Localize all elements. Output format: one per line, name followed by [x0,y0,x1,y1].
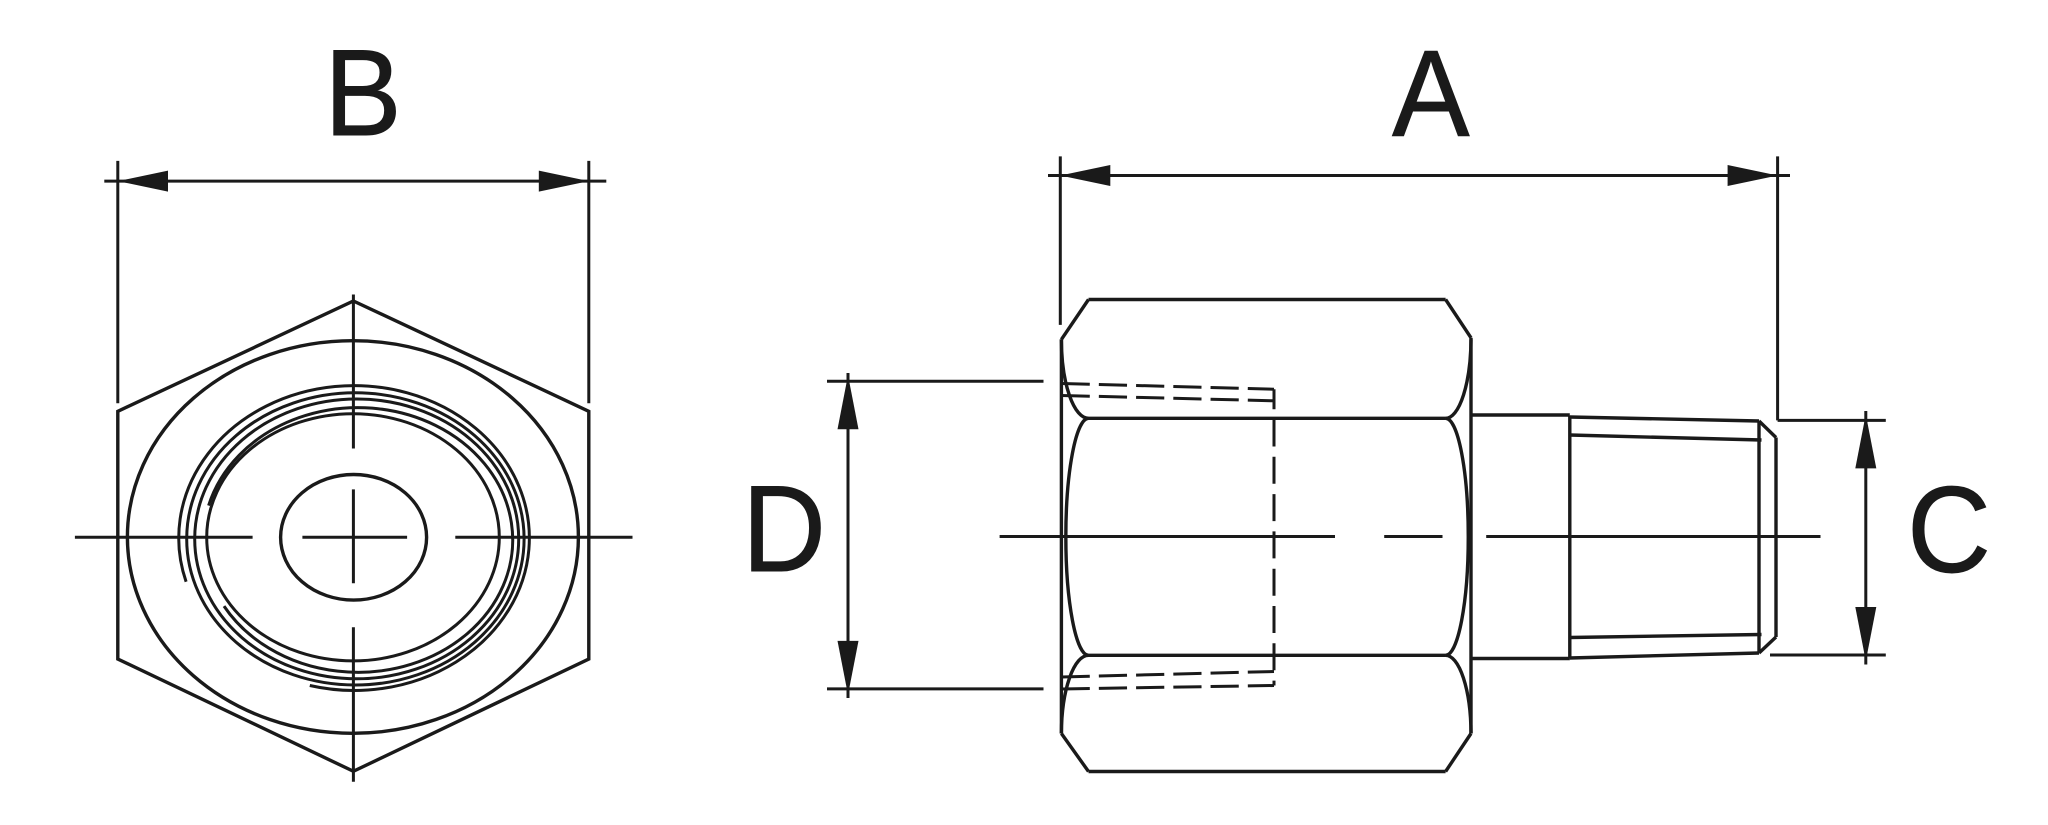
left view: vertical centerline upper segment [352,295,355,449]
left view: center bore ellipse [281,475,427,601]
right view: top-left corner chamfer [1061,300,1088,340]
dimension A: left extension line [1059,156,1062,325]
right view: hex body bottom edge [1089,770,1446,773]
right view: hidden internal thread top inner dashed line [1062,396,1274,401]
svg-text:C: C [1907,462,1991,599]
right view: shoulder top line [1471,413,1570,416]
right view: top-right face arc [1446,338,1471,419]
svg-text:A: A [1392,26,1470,163]
left view: thread ring 4 (partial, gap at left) [209,408,513,673]
right view: bottom-left face arc [1061,655,1088,733]
right view: male thread top root line [1570,435,1762,440]
dimension C: dimension line [1864,411,1867,665]
left view: vertical centerline center-mark segment [352,489,355,583]
dimension A: right arrowhead [1728,165,1778,186]
right view: shoulder bottom line [1471,657,1570,660]
right view: bottom-right corner chamfer [1446,734,1471,772]
dimension C: top arrowhead [1855,414,1876,468]
svg-text:B: B [324,25,401,162]
left view: vertical centerline lower segment [352,627,355,782]
dimension D: top arrowhead [838,375,859,429]
dimension B: left arrowhead [118,171,168,192]
left view: thread outer ring (partial, runout gap at lower-left) [179,386,530,691]
dimension A: right extension line [1776,156,1779,420]
right view: hidden internal thread bottom inner dashed line [1062,672,1274,678]
right view: horizontal centerline right segment [1486,535,1820,538]
right view: tip bottom chamfer [1759,637,1776,653]
left view: chamfer ellipse (outer circle) [127,341,578,734]
dimension B: dimension line [104,180,606,183]
right view: hex body top edge [1089,298,1446,301]
dimension B: left extension line [116,161,119,403]
svg-text:D: D [742,461,826,598]
dimension D: bottom extension line [827,687,1044,690]
dimension A: dimension line [1048,174,1790,177]
dimension A: left arrowhead [1060,165,1110,186]
dimension D: top extension line [827,380,1044,383]
right view: bottom-right face arc [1446,655,1471,733]
left view: horizontal centerline left segment [75,536,253,539]
right view: male thread bottom root line [1570,635,1762,638]
left view: horizontal centerline right segment [455,536,632,539]
right view: bottom-left corner chamfer [1061,734,1088,772]
right view: mid-face top line [1089,417,1446,420]
dimension D: dimension line [847,373,850,698]
right view: thread start vertical line [1568,416,1571,659]
dimension C: bottom extension line [1770,654,1886,657]
right view: tip top chamfer [1759,421,1776,438]
dimension C: top extension line [1778,419,1886,422]
dimension C: bottom arrowhead [1855,607,1876,661]
left view: thread ring 3 [195,399,519,679]
right view: horizontal centerline middle dash [1384,535,1442,538]
right view: hidden internal thread top outer dashed line [1062,384,1274,390]
left view: hexagon body outline (front view) [118,301,589,771]
right view: male thread top crest line [1570,417,1759,421]
right view: hidden thread depth vertical dashed line [1273,389,1276,685]
left view: thread minor-diameter ellipse [207,414,500,661]
right view: mid-face bottom line [1089,654,1446,657]
right view: hidden internal thread bottom outer dashed line [1062,686,1274,690]
dimension B: right arrowhead [539,171,589,192]
dimension B: right extension line [587,161,590,403]
right view: thread end vertical line [1757,421,1760,653]
right view: tip end face [1774,438,1777,638]
right view: horizontal centerline left segment [1000,535,1335,538]
right view: male thread bottom crest line [1570,653,1759,658]
dimension D: bottom arrowhead [838,641,859,695]
right view: mid-face left arc [1066,418,1089,655]
right view: hex body right edge [1469,339,1472,733]
right view: hex body left edge [1060,339,1063,733]
right view: mid-face right arc [1446,418,1469,655]
left view: thread ring 2 [187,393,524,685]
right view: top-left face arc [1061,339,1088,418]
right view: top-right corner chamfer [1446,300,1471,338]
left view: horizontal centerline center-mark segment [302,536,407,539]
